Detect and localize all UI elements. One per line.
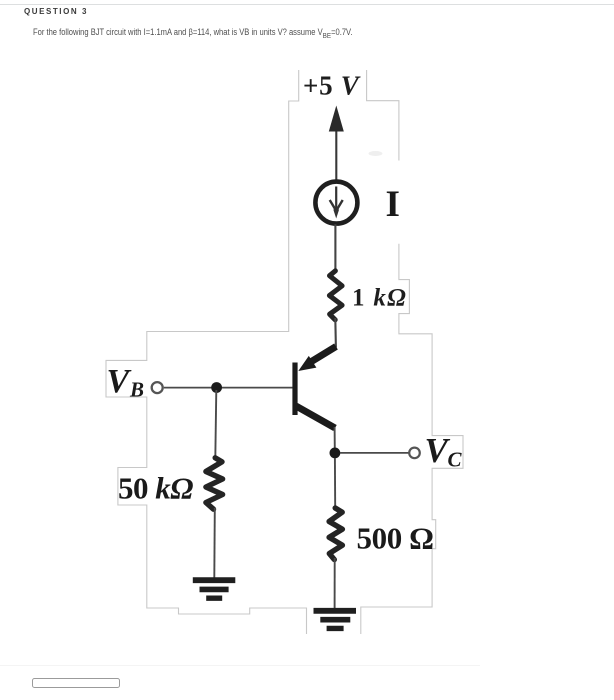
- answer input box: [32, 678, 120, 689]
- wire VC node to R 500: [334, 458, 336, 509]
- svg-text:C: C: [448, 448, 463, 472]
- VB terminal: [152, 382, 163, 393]
- svg-text:B: B: [129, 378, 144, 402]
- wire R 1k to transistor emitter: [334, 318, 337, 348]
- resistor 1 kOhm: [329, 271, 342, 320]
- current source I: [315, 182, 357, 224]
- transistor Q1 PNP: [292, 347, 336, 429]
- VC terminal: [409, 448, 420, 459]
- wire VB terminal to base: [164, 387, 293, 389]
- wire collector to VC node: [334, 427, 336, 450]
- resistor 500 Ohm: [329, 508, 342, 560]
- ground right: [314, 611, 357, 629]
- faint divider: [0, 665, 480, 666]
- svg-text:V: V: [107, 363, 132, 400]
- svg-text:1 kΩ: 1 kΩ: [352, 285, 407, 312]
- svg-text:50 kΩ: 50 kΩ: [118, 471, 193, 506]
- wire from +5V down to current source with up arrow: [329, 106, 344, 180]
- svg-text:+5 V: +5 V: [303, 71, 361, 101]
- ground left: [193, 580, 236, 598]
- svg-text:500 Ω: 500 Ω: [357, 521, 434, 556]
- wire current source to R 1k: [334, 224, 336, 272]
- junction node at base: [211, 382, 222, 393]
- wire R 50k to ground: [213, 508, 216, 578]
- wire R 500 to ground: [334, 558, 336, 609]
- svg-text:I: I: [386, 184, 400, 225]
- wire VC node to VC terminal: [340, 452, 409, 454]
- resistor 50 kOhm: [206, 458, 223, 509]
- top divider: [0, 4, 614, 5]
- node VC junction: [330, 448, 341, 459]
- wire junction to R 50k: [215, 390, 216, 459]
